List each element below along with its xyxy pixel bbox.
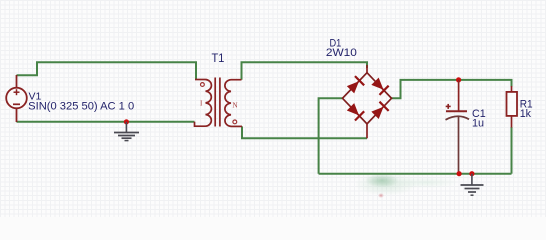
diode D1 bottom-right: [370, 102, 388, 120]
wire R1 bottom to rail: [511, 127, 513, 174]
capacitor C1: [446, 80, 470, 174]
wire transformer secondary top to bridge top: [242, 62, 368, 79]
wire source bottom rail: [17, 121, 195, 123]
watermark green blob: [366, 174, 398, 187]
svg-text:2W10: 2W10: [326, 47, 357, 59]
secondary pin top: [231, 79, 242, 81]
ground (right): [461, 174, 484, 196]
label D1 value: [326, 47, 357, 59]
wire transformer secondary bottom to bridge bottom: [242, 126, 367, 138]
junction dot C1 bottom: [457, 171, 462, 176]
svg-text:I: I: [200, 100, 203, 108]
primary pin top: [195, 79, 206, 81]
svg-text:SIN(0 325 50) AC 1 0: SIN(0 325 50) AC 1 0: [28, 100, 134, 112]
junction dot ground 2: [469, 171, 474, 176]
svg-text:1u: 1u: [472, 118, 484, 130]
resistor R1: [507, 86, 518, 128]
bridge rectifier D1: [343, 65, 392, 138]
label R1 value: [520, 108, 532, 120]
label V1 value: [28, 100, 134, 112]
label R1: [520, 98, 533, 110]
label C1 value: [472, 118, 484, 130]
svg-text:1k: 1k: [520, 108, 532, 120]
bridge pin bottom: [366, 124, 368, 138]
diode D1 top-right: [370, 77, 388, 95]
svg-text:N: N: [233, 102, 238, 110]
diode D1 top-left: [346, 76, 364, 94]
wire source top to transformer primary top: [17, 62, 197, 79]
ground (left): [114, 122, 139, 141]
junction dot at ground 1: [124, 119, 129, 124]
wire bridge left to bottom rail: [319, 98, 343, 173]
wire bottom rail: [319, 173, 512, 175]
transformer T1: [195, 78, 243, 127]
label T1: [212, 53, 225, 65]
voltage source V1: [6, 75, 27, 122]
diode D1 bottom-left: [346, 102, 364, 120]
primary polarity dot: [201, 83, 205, 87]
label D1: [330, 38, 342, 50]
label V1: [29, 91, 42, 103]
primary winding: [206, 80, 212, 127]
secondary pin bottom: [231, 125, 242, 127]
primary pin bottom (elbow): [195, 122, 206, 126]
core: [214, 78, 216, 127]
secondary polarity dot: [233, 120, 237, 124]
wire bridge right to R1 top: [392, 80, 512, 98]
junction dot C1 top: [456, 77, 461, 82]
secondary winding: [225, 80, 231, 127]
svg-text:T1: T1: [212, 53, 225, 65]
bridge pin top: [366, 65, 368, 73]
label C1: [472, 108, 486, 120]
